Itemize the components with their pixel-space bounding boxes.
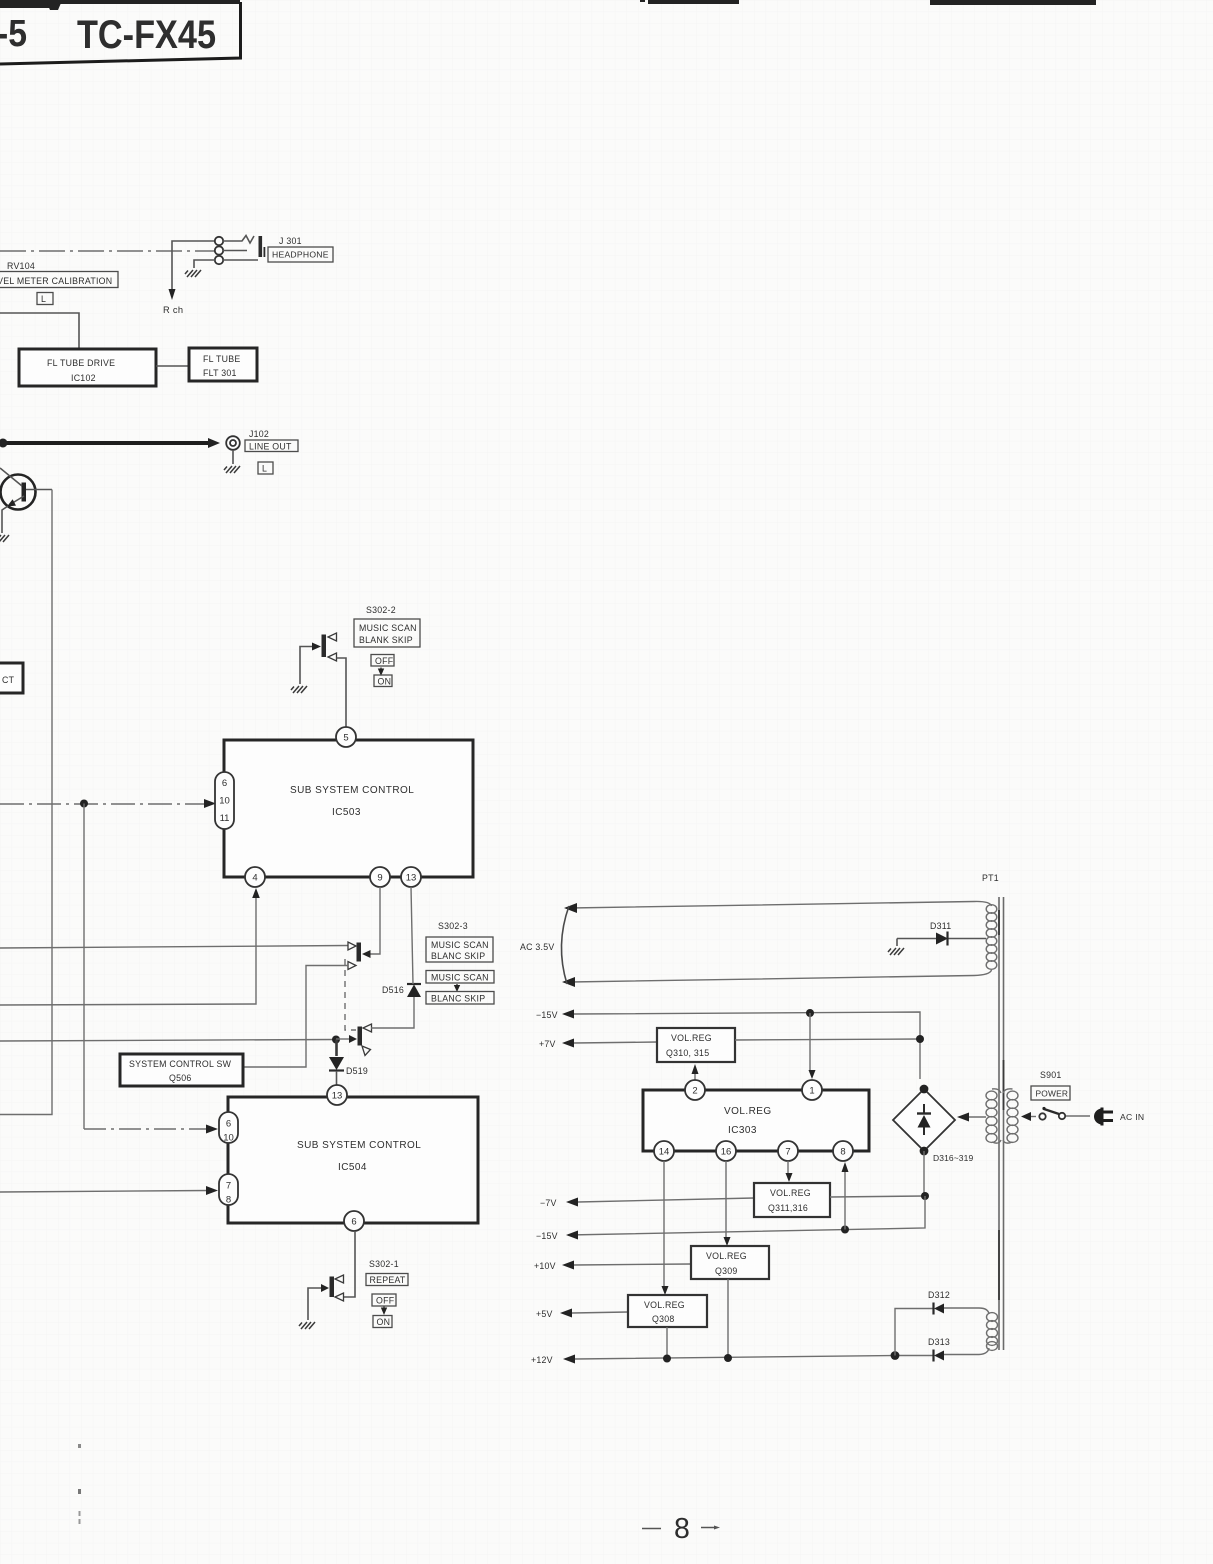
svg-text:J102: J102 xyxy=(249,429,269,439)
svg-text:VOL.REG: VOL.REG xyxy=(671,1033,712,1043)
svg-text:LINE OUT: LINE OUT xyxy=(249,442,292,452)
svg-text:7: 7 xyxy=(226,1181,231,1192)
svg-text:8: 8 xyxy=(674,1513,690,1545)
svg-text:D316~319: D316~319 xyxy=(933,1153,973,1163)
svg-text:MUSIC SCAN: MUSIC SCAN xyxy=(431,940,489,950)
svg-text:OFF: OFF xyxy=(376,1296,395,1306)
svg-text:13: 13 xyxy=(406,872,417,883)
svg-text:10: 10 xyxy=(219,796,230,807)
svg-text:FLT 301: FLT 301 xyxy=(203,368,237,378)
svg-text:−15V: −15V xyxy=(536,1231,558,1241)
svg-text:+12V: +12V xyxy=(531,1355,553,1365)
svg-text:IC303: IC303 xyxy=(728,1125,757,1136)
svg-text:16: 16 xyxy=(721,1146,732,1157)
svg-text:14: 14 xyxy=(659,1146,670,1157)
svg-text:-5: -5 xyxy=(0,13,27,55)
svg-text:+7V: +7V xyxy=(539,1039,556,1049)
svg-text:D312: D312 xyxy=(928,1290,950,1300)
svg-text:BLANC SKIP: BLANC SKIP xyxy=(431,994,485,1004)
svg-text:S901: S901 xyxy=(1040,1070,1062,1080)
svg-text:EVEL METER CALIBRATION: EVEL METER CALIBRATION xyxy=(0,276,112,286)
svg-text:SUB SYSTEM CONTROL: SUB SYSTEM CONTROL xyxy=(297,1140,421,1151)
svg-text:AC IN: AC IN xyxy=(1120,1112,1144,1122)
svg-text:Q310, 315: Q310, 315 xyxy=(666,1048,709,1058)
svg-text:L: L xyxy=(41,294,46,304)
svg-text:VOL.REG: VOL.REG xyxy=(706,1251,747,1261)
svg-text:7: 7 xyxy=(785,1146,790,1157)
svg-text:IC504: IC504 xyxy=(338,1162,367,1173)
svg-text:BLANK SKIP: BLANK SKIP xyxy=(359,635,413,645)
svg-text:13: 13 xyxy=(332,1090,343,1101)
svg-text:S302-1: S302-1 xyxy=(369,1259,399,1269)
svg-text:S302-3: S302-3 xyxy=(438,921,468,931)
svg-text:SUB SYSTEM CONTROL: SUB SYSTEM CONTROL xyxy=(290,785,414,796)
svg-text:J 301: J 301 xyxy=(279,236,302,246)
svg-text:−15V: −15V xyxy=(536,1010,558,1020)
svg-text:10: 10 xyxy=(223,1133,234,1144)
svg-text:FL TUBE DRIVE: FL TUBE DRIVE xyxy=(47,358,115,368)
svg-text:VOL.REG: VOL.REG xyxy=(770,1188,811,1198)
svg-text:Q309: Q309 xyxy=(715,1266,738,1276)
svg-text:2: 2 xyxy=(692,1085,697,1096)
svg-text:8: 8 xyxy=(840,1146,845,1157)
svg-text:D313: D313 xyxy=(928,1337,950,1347)
svg-text:Q311,316: Q311,316 xyxy=(768,1203,808,1213)
svg-text:11: 11 xyxy=(220,813,230,824)
svg-text:MUSIC SCAN: MUSIC SCAN xyxy=(359,623,417,633)
svg-text:6: 6 xyxy=(226,1119,231,1130)
svg-text:SYSTEM CONTROL SW: SYSTEM CONTROL SW xyxy=(129,1059,232,1069)
svg-text:FL TUBE: FL TUBE xyxy=(203,354,240,364)
svg-text:ON: ON xyxy=(378,677,392,687)
svg-text:CT: CT xyxy=(2,675,15,685)
svg-text:4: 4 xyxy=(252,872,257,883)
svg-text:D516: D516 xyxy=(382,985,404,995)
svg-text:−7V: −7V xyxy=(540,1198,557,1208)
svg-text:OFF: OFF xyxy=(375,656,394,666)
svg-text:TC-FX45: TC-FX45 xyxy=(77,13,216,57)
svg-text:S302-2: S302-2 xyxy=(366,605,396,615)
svg-text:6: 6 xyxy=(351,1216,356,1227)
svg-text:R ch: R ch xyxy=(163,305,183,315)
svg-text:IC503: IC503 xyxy=(332,807,361,818)
svg-text:POWER: POWER xyxy=(1036,1089,1069,1099)
svg-text:REPEAT: REPEAT xyxy=(370,1275,406,1285)
svg-text:1: 1 xyxy=(809,1085,814,1096)
svg-text:IC102: IC102 xyxy=(71,373,96,383)
svg-text:5: 5 xyxy=(343,732,348,743)
svg-text:HEADPHONE: HEADPHONE xyxy=(272,250,329,260)
svg-text:9: 9 xyxy=(377,872,382,883)
svg-text:BLANC SKIP: BLANC SKIP xyxy=(431,951,485,961)
svg-text:6: 6 xyxy=(222,778,227,789)
svg-text:MUSIC SCAN: MUSIC SCAN xyxy=(431,973,489,983)
svg-text:D311: D311 xyxy=(930,921,951,931)
svg-text:VOL.REG: VOL.REG xyxy=(644,1300,685,1310)
svg-text:PT1: PT1 xyxy=(982,873,999,883)
svg-text:RV104: RV104 xyxy=(7,261,35,271)
svg-text:+5V: +5V xyxy=(536,1309,553,1319)
svg-text:ON: ON xyxy=(377,1317,391,1327)
svg-text:L: L xyxy=(262,464,267,474)
svg-text:VOL.REG: VOL.REG xyxy=(724,1106,772,1117)
svg-text:D519: D519 xyxy=(346,1066,368,1076)
svg-text:Q506: Q506 xyxy=(169,1073,192,1083)
svg-text:+10V: +10V xyxy=(534,1261,556,1271)
svg-text:8: 8 xyxy=(226,1195,231,1206)
svg-text:Q308: Q308 xyxy=(652,1314,675,1324)
svg-text:AC 3.5V: AC 3.5V xyxy=(520,942,555,952)
